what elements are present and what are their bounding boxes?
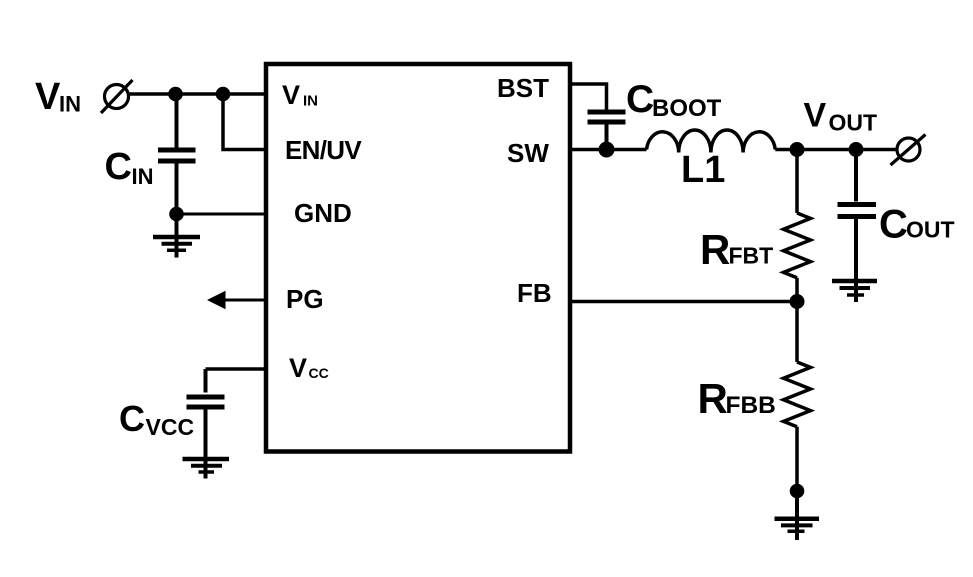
svg-text:VCC: VCC: [146, 414, 195, 440]
svg-text:R: R: [700, 226, 730, 273]
svg-text:BOOT: BOOT: [652, 95, 722, 122]
svg-text:C: C: [119, 398, 145, 439]
svg-text:PG: PG: [286, 284, 324, 314]
svg-text:C: C: [626, 78, 654, 121]
svg-text:FB: FB: [517, 278, 552, 308]
svg-text:OUT: OUT: [829, 110, 878, 136]
svg-text:C: C: [879, 203, 908, 247]
svg-text:SW: SW: [507, 138, 549, 168]
svg-text:OUT: OUT: [906, 217, 955, 243]
svg-text:EN/UV: EN/UV: [285, 135, 362, 165]
svg-text:GND: GND: [294, 198, 352, 228]
svg-text:C: C: [105, 146, 132, 188]
svg-text:V: V: [804, 97, 827, 135]
svg-text:V: V: [282, 80, 300, 110]
svg-text:BST: BST: [497, 73, 549, 103]
svg-text:FBT: FBT: [729, 243, 774, 269]
svg-text:L1: L1: [681, 149, 725, 191]
svg-text:V: V: [35, 76, 61, 118]
svg-text:IN: IN: [132, 164, 154, 189]
svg-text:CC: CC: [309, 365, 329, 381]
svg-text:FBB: FBB: [726, 392, 776, 419]
svg-text:R: R: [698, 375, 728, 422]
svg-text:IN: IN: [303, 93, 318, 110]
svg-text:IN: IN: [59, 92, 81, 117]
svg-text:V: V: [289, 353, 307, 383]
